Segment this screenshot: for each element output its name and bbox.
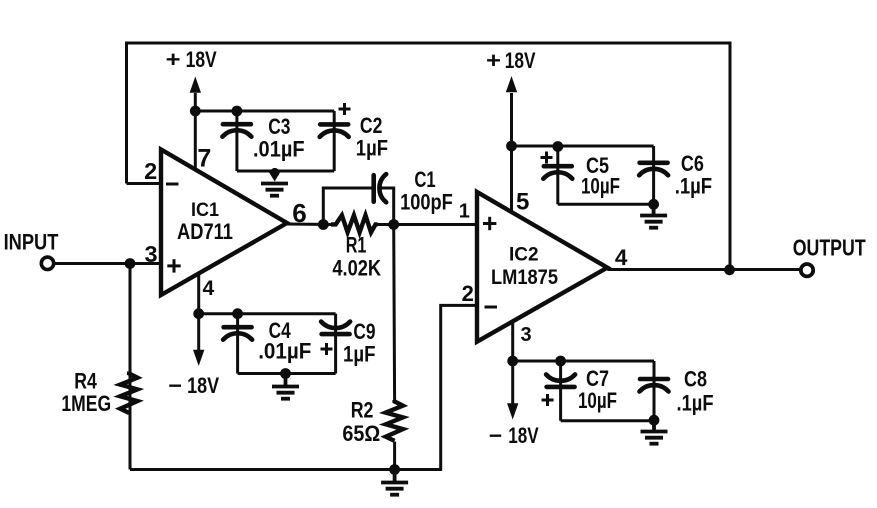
svg-text:4: 4 bbox=[615, 245, 628, 270]
svg-text:.1µF: .1µF bbox=[677, 391, 714, 416]
svg-text:3: 3 bbox=[520, 324, 531, 346]
svg-text:−: − bbox=[489, 423, 502, 448]
svg-text:IC2: IC2 bbox=[509, 245, 539, 266]
svg-text:C8: C8 bbox=[684, 367, 707, 392]
svg-text:OUTPUT: OUTPUT bbox=[793, 234, 866, 260]
svg-text:2: 2 bbox=[462, 281, 474, 306]
svg-text:10µF: 10µF bbox=[581, 174, 620, 199]
svg-text:65Ω: 65Ω bbox=[342, 421, 380, 446]
svg-text:R1: R1 bbox=[346, 233, 367, 258]
svg-text:.1µF: .1µF bbox=[675, 174, 712, 199]
svg-text:7: 7 bbox=[197, 144, 211, 172]
svg-text:1µF: 1µF bbox=[356, 136, 388, 161]
svg-text:−: − bbox=[168, 373, 182, 398]
svg-text:1MEG: 1MEG bbox=[61, 391, 111, 416]
svg-text:6: 6 bbox=[292, 198, 306, 228]
svg-text:10µF: 10µF bbox=[578, 388, 617, 413]
svg-text:+: + bbox=[166, 47, 181, 72]
svg-text:C2: C2 bbox=[360, 113, 383, 138]
svg-text:C3: C3 bbox=[268, 114, 290, 139]
svg-text:1: 1 bbox=[459, 201, 470, 223]
svg-text:1µF: 1µF bbox=[343, 342, 376, 367]
svg-text:LM1875: LM1875 bbox=[491, 265, 558, 289]
svg-text:18V: 18V bbox=[508, 423, 539, 448]
svg-text:4.02K: 4.02K bbox=[332, 255, 381, 280]
svg-text:.01µF: .01µF bbox=[258, 339, 311, 364]
svg-text:4: 4 bbox=[203, 277, 215, 300]
svg-text:IC1: IC1 bbox=[191, 200, 219, 221]
svg-text:18V: 18V bbox=[186, 47, 217, 72]
svg-text:AD711: AD711 bbox=[177, 219, 233, 244]
svg-text:5: 5 bbox=[516, 188, 529, 215]
svg-text:2: 2 bbox=[144, 158, 157, 184]
svg-text:R2: R2 bbox=[351, 398, 374, 423]
svg-text:C9: C9 bbox=[353, 319, 375, 344]
svg-text:18V: 18V bbox=[505, 48, 536, 73]
svg-text:100pF: 100pF bbox=[400, 189, 453, 214]
svg-text:18V: 18V bbox=[187, 373, 219, 398]
svg-text:C6: C6 bbox=[681, 151, 704, 176]
svg-text:INPUT: INPUT bbox=[4, 230, 59, 255]
svg-text:.01µF: .01µF bbox=[253, 137, 305, 162]
svg-text:+: + bbox=[486, 48, 501, 73]
svg-text:3: 3 bbox=[144, 241, 157, 267]
